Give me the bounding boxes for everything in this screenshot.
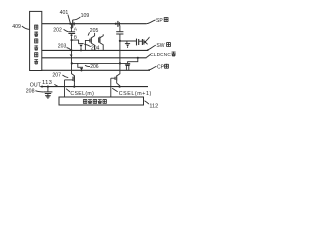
long vertical wire column m+1 [119, 41, 121, 70]
SW row wire with contact [120, 41, 136, 48]
SW line bus wire [42, 49, 149, 51]
junction 207 source on OUT line [73, 86, 75, 88]
SP line bus wire [42, 23, 147, 25]
vertical wire B down across buses [70, 40, 73, 63]
svg-text:203: 203 [58, 43, 67, 49]
node on SW row column m+1 [119, 40, 121, 42]
CP line bus wire [42, 69, 150, 71]
OUT output line with left arrow [30, 82, 148, 88]
svg-text:207: 207 [52, 73, 61, 79]
svg-text:401: 401 [60, 10, 69, 16]
transistor on SP line column m+1 [115, 21, 120, 32]
wire node B to gate of 205 [73, 40, 79, 44]
MOS contact 204 on SW bus [78, 44, 83, 52]
ground [45, 94, 51, 99]
junction on CP feed row [119, 62, 121, 64]
label 113 with tick [42, 80, 58, 86]
label 202 with leader [53, 28, 68, 34]
CSEL(m) select wire [65, 80, 95, 97]
capacitor 208 [43, 87, 52, 94]
SW line hook and label [147, 42, 171, 50]
small MOS between rows column m+1 [125, 64, 130, 71]
CLDCNC line bus wire [42, 57, 147, 59]
capacitor column m+1 [116, 32, 123, 41]
horizontal wire on CP feed row [72, 62, 125, 64]
svg-text:204: 204 [91, 45, 100, 51]
junction on CLDCNC bus [137, 57, 139, 59]
transistor 207 [65, 63, 75, 86]
label 204 with leader [84, 44, 99, 51]
svg-text:109: 109 [81, 13, 90, 19]
svg-text:B: B [74, 34, 77, 40]
column selection circuit box 112 [59, 97, 144, 105]
svg-text:202: 202 [53, 28, 62, 34]
wire capacitor to node B with arrow [70, 34, 73, 41]
svg-text:206: 206 [90, 64, 99, 70]
label 112 with leader [145, 101, 159, 110]
svg-text:112: 112 [149, 104, 158, 110]
CLDCNC line hook and label [146, 51, 176, 57]
label 109 with leader [73, 13, 89, 20]
CP line hook and label [148, 64, 169, 71]
transistor on SW row [142, 37, 149, 45]
svg-text:113: 113 [42, 80, 52, 86]
node B junction [71, 34, 77, 41]
second transistor of 205 pair [99, 34, 104, 50]
svg-text:409: 409 [12, 24, 21, 30]
svg-text:CSEL(m+1): CSEL(m+1) [119, 91, 152, 97]
label 208 with leader [26, 88, 44, 94]
signal processing circuit box 409 [30, 11, 42, 70]
junction column m+1 source on OUT line [119, 86, 121, 88]
label 203 with leader [58, 43, 71, 50]
svg-text:CP: CP [157, 65, 165, 71]
SP line hook and label [147, 17, 169, 24]
label 205 with leader [88, 28, 98, 36]
label 207 with leader [52, 73, 68, 79]
contact 206 to CP bus [78, 63, 83, 71]
svg-text:208: 208 [26, 88, 35, 94]
transistor column m+1 output [111, 70, 120, 86]
transistor 205 [85, 33, 94, 51]
svg-text:CLDCNC: CLDCNC [150, 52, 171, 57]
label 206 with leader [85, 64, 99, 70]
zigzag wire CLDCNC bus to small MOS [128, 58, 138, 64]
transistor 109 on SP line [69, 20, 74, 28]
capacitor on SW row [137, 39, 143, 46]
label 409 with leader [12, 24, 29, 30]
svg-text:SW: SW [156, 43, 164, 49]
CSEL(m+1) select wire [111, 78, 152, 97]
svg-text:SP: SP [156, 18, 163, 24]
OUT node junction [47, 86, 49, 88]
label 401 with leader [60, 10, 71, 23]
capacitor 202 [68, 32, 75, 34]
svg-text:205: 205 [90, 28, 99, 34]
wire from SP transistor down to node A [70, 24, 73, 32]
svg-text:CSEL(m): CSEL(m) [70, 91, 94, 97]
junction node on B column CP feed row [71, 62, 73, 64]
